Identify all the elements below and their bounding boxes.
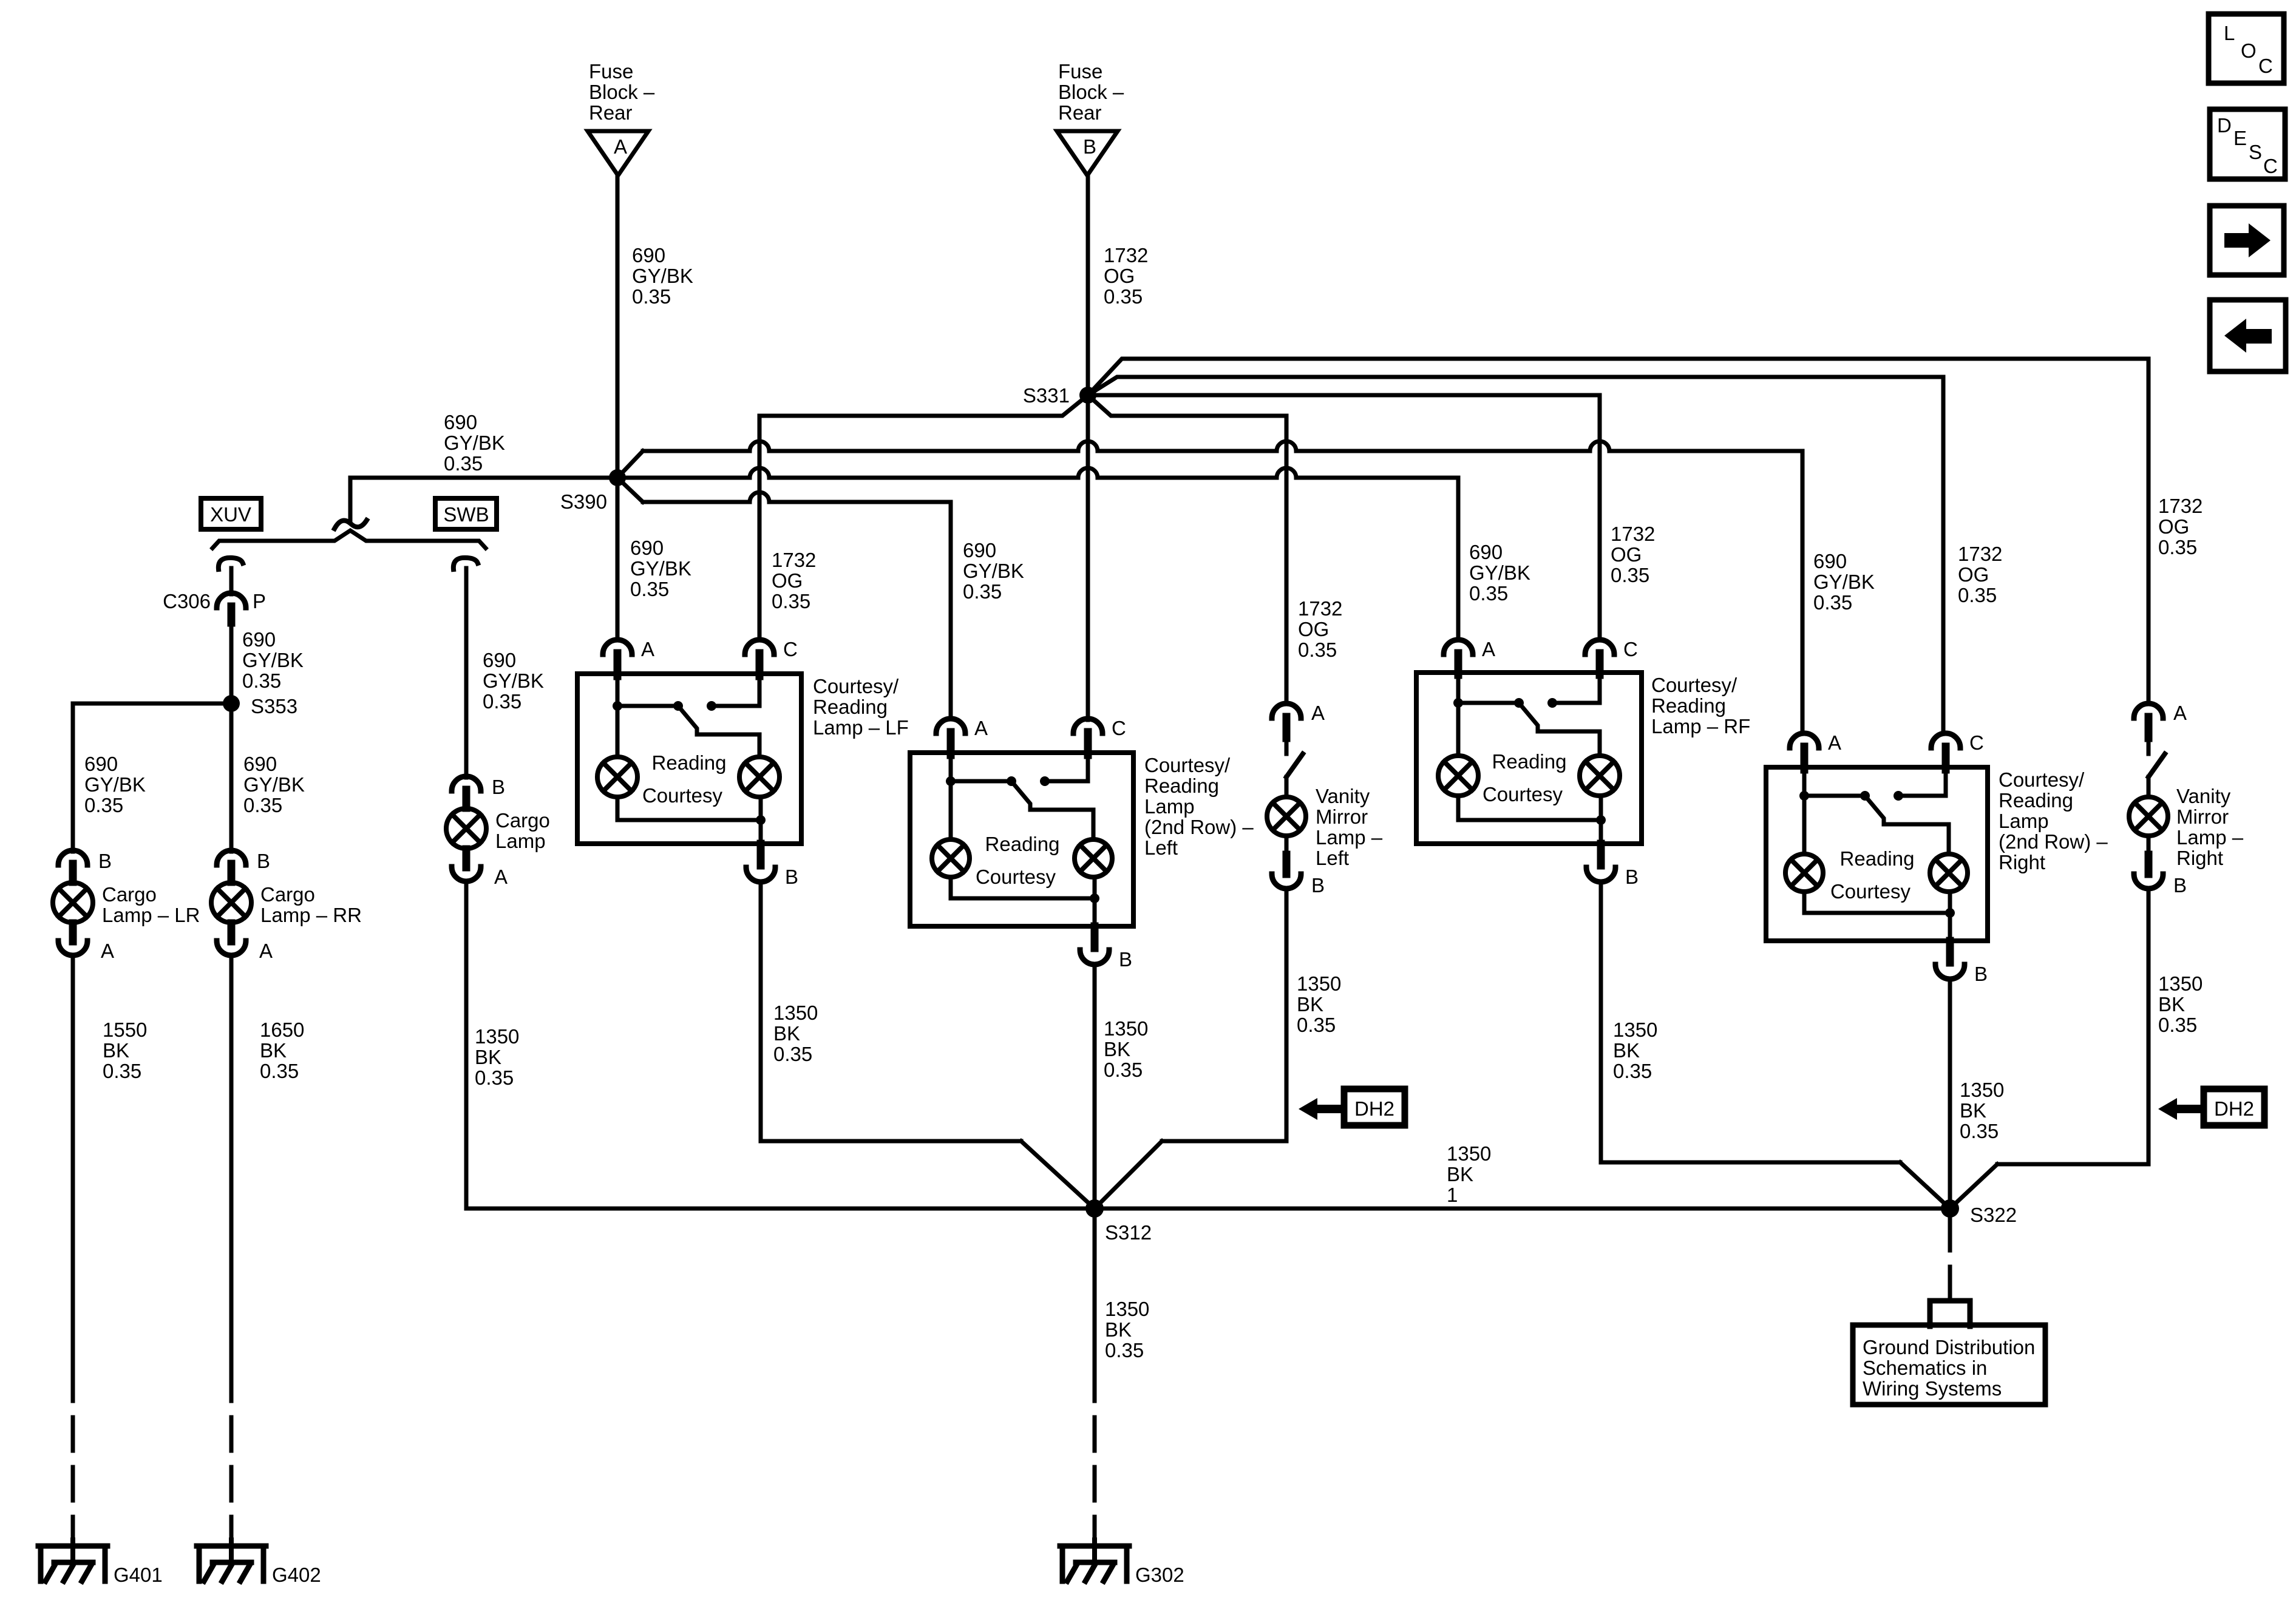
- svg-text:Block –: Block –: [589, 81, 655, 103]
- wire S312 dashed: [1093, 1368, 1097, 1542]
- svg-text:OG: OG: [772, 569, 803, 592]
- svg-text:1732: 1732: [1958, 543, 2002, 565]
- reference arrow DH2 (left): [1344, 1089, 1405, 1125]
- wire S390 left to harness brace: [350, 476, 617, 480]
- wire S331 to 2nd-row-right C: [1088, 377, 1943, 395]
- wire cargo RR dashed: [229, 1368, 234, 1542]
- svg-text:1550: 1550: [103, 1019, 147, 1041]
- wire S390 to 2nd-row-right A: [617, 451, 643, 478]
- wire S331 to vanity-left: [1088, 395, 1286, 416]
- svg-text:0.35: 0.35: [1813, 591, 1852, 614]
- svg-text:Reading: Reading: [1999, 789, 2073, 812]
- svg-text:Lamp – LR: Lamp – LR: [102, 904, 200, 926]
- svg-text:0.35: 0.35: [103, 1060, 141, 1082]
- svg-text:Reading: Reading: [1651, 694, 1726, 717]
- wire to C306: [229, 568, 234, 594]
- svg-text:S353: S353: [251, 695, 297, 717]
- svg-text:A: A: [1482, 638, 1495, 660]
- ground bus: [466, 1207, 1950, 1211]
- svg-text:OG: OG: [1958, 563, 1989, 586]
- svg-text:BK: BK: [1297, 993, 1323, 1015]
- svg-text:G302: G302: [1135, 1564, 1184, 1586]
- svg-text:0.35: 0.35: [444, 452, 483, 475]
- svg-text:Vanity: Vanity: [1316, 785, 1370, 807]
- svg-text:A: A: [259, 940, 273, 962]
- wire break symbol: [335, 520, 367, 529]
- svg-text:C: C: [2258, 55, 2273, 77]
- legend LOC box: [2209, 14, 2284, 83]
- svg-text:A: A: [2173, 702, 2187, 724]
- wire 2nd-row-left B to S312: [1093, 964, 1097, 1209]
- svg-text:C: C: [1969, 731, 1984, 754]
- svg-text:A: A: [1828, 731, 1841, 754]
- svg-text:Wiring Systems: Wiring Systems: [1863, 1377, 2002, 1400]
- svg-text:1350: 1350: [1447, 1142, 1491, 1165]
- svg-text:Left: Left: [1144, 836, 1178, 859]
- svg-text:C306: C306: [163, 590, 211, 612]
- svg-text:1350: 1350: [2158, 972, 2203, 995]
- svg-text:A: A: [101, 940, 114, 962]
- svg-text:Left: Left: [1316, 847, 1349, 869]
- connector upper half (XUV): [219, 558, 243, 569]
- svg-text:690: 690: [630, 537, 664, 559]
- svg-text:1350: 1350: [1297, 972, 1341, 995]
- svg-text:Reading: Reading: [652, 751, 727, 774]
- ground G402: [229, 1540, 234, 1564]
- svg-text:BK: BK: [1960, 1099, 1986, 1122]
- XUV box: [201, 498, 261, 529]
- svg-text:S322: S322: [1970, 1204, 2017, 1226]
- svg-text:0.35: 0.35: [632, 285, 671, 308]
- wire LF B to S312: [759, 882, 763, 1141]
- svg-text:1350: 1350: [1613, 1019, 1657, 1041]
- svg-text:690: 690: [444, 411, 477, 433]
- svg-text:GY/BK: GY/BK: [963, 560, 1024, 582]
- svg-text:Lamp: Lamp: [495, 830, 546, 852]
- svg-text:Lamp – RF: Lamp – RF: [1651, 715, 1750, 737]
- fuse block A triangle: [588, 131, 648, 175]
- svg-text:E: E: [2233, 127, 2247, 149]
- splice S353: [223, 695, 240, 712]
- splice S322: [1941, 1199, 1959, 1218]
- svg-text:B: B: [1083, 135, 1096, 158]
- ground distribution reference box: [1853, 1325, 2045, 1405]
- svg-text:Lamp – RR: Lamp – RR: [260, 904, 362, 926]
- svg-text:0.35: 0.35: [772, 590, 810, 612]
- svg-text:B: B: [1625, 866, 1639, 888]
- svg-text:Courtesy: Courtesy: [642, 784, 723, 807]
- svg-text:1: 1: [1447, 1184, 1458, 1206]
- svg-text:B: B: [257, 850, 270, 872]
- svg-text:Right: Right: [1999, 851, 2045, 873]
- fuse block B triangle: [1057, 131, 1118, 175]
- off-page ground bracket: [1930, 1301, 1970, 1326]
- svg-text:690: 690: [242, 628, 276, 651]
- svg-text:Courtesy/: Courtesy/: [813, 675, 899, 697]
- svg-text:Rear: Rear: [1058, 101, 1102, 124]
- svg-text:S390: S390: [560, 490, 607, 513]
- wire RF B to S322: [1599, 882, 1603, 1162]
- svg-text:0.35: 0.35: [475, 1066, 514, 1089]
- svg-text:A: A: [1311, 702, 1325, 724]
- svg-text:BK: BK: [1105, 1318, 1132, 1341]
- svg-text:C: C: [783, 638, 798, 660]
- svg-text:0.35: 0.35: [2158, 536, 2197, 558]
- wire S322 dashed to off-page ground: [1948, 1217, 1952, 1301]
- wire vanity-right to S322: [2147, 889, 2151, 1164]
- svg-text:C: C: [1623, 638, 1638, 660]
- svg-text:0.35: 0.35: [242, 670, 281, 692]
- svg-text:Reading: Reading: [985, 833, 1060, 855]
- cargo lamp (SWB): [452, 776, 481, 791]
- svg-text:BK: BK: [1447, 1163, 1473, 1185]
- svg-text:DH2: DH2: [1354, 1097, 1394, 1120]
- svg-text:Lamp – LF: Lamp – LF: [813, 716, 909, 739]
- legend left-arrow box: [2210, 300, 2286, 371]
- svg-text:Cargo: Cargo: [102, 883, 157, 906]
- svg-text:S: S: [2249, 141, 2262, 163]
- svg-text:1350: 1350: [1105, 1298, 1149, 1320]
- svg-text:GY/BK: GY/BK: [1469, 561, 1530, 584]
- wire cargo LR dashed: [71, 1368, 75, 1542]
- svg-text:690: 690: [483, 649, 516, 671]
- svg-text:GY/BK: GY/BK: [242, 649, 304, 671]
- svg-text:Reading: Reading: [1492, 750, 1567, 773]
- svg-text:SWB: SWB: [443, 503, 489, 526]
- svg-text:C: C: [1112, 717, 1126, 739]
- svg-text:Schematics in: Schematics in: [1863, 1357, 1987, 1379]
- svg-text:BK: BK: [2158, 993, 2185, 1015]
- svg-text:Courtesy: Courtesy: [976, 866, 1056, 888]
- splice S312: [1085, 1199, 1104, 1218]
- svg-text:0.35: 0.35: [773, 1043, 812, 1065]
- wire A fuse to S390: [616, 175, 620, 478]
- svg-text:O: O: [2241, 39, 2257, 62]
- svg-text:A: A: [641, 638, 654, 660]
- ground G302: [1092, 1540, 1097, 1564]
- svg-text:Courtesy: Courtesy: [1483, 783, 1563, 805]
- svg-text:BK: BK: [103, 1039, 129, 1062]
- svg-text:Fuse: Fuse: [589, 60, 633, 83]
- svg-text:P: P: [253, 590, 266, 612]
- svg-text:Lamp: Lamp: [1999, 810, 2049, 832]
- svg-text:0.35: 0.35: [1297, 1014, 1336, 1036]
- courtesy/reading lamp RF: [1416, 673, 1642, 844]
- svg-text:Mirror: Mirror: [1316, 805, 1368, 828]
- wire S312 to G302 (solid): [1093, 1209, 1097, 1368]
- svg-text:Courtesy/: Courtesy/: [1144, 754, 1231, 776]
- svg-text:Courtesy/: Courtesy/: [1651, 674, 1737, 696]
- wire cargo LR to ground (solid): [71, 956, 75, 1368]
- wire S390 to 2nd-row-left A: [617, 478, 643, 502]
- svg-text:0.35: 0.35: [1469, 582, 1508, 605]
- svg-text:1350: 1350: [1960, 1079, 2004, 1101]
- svg-text:GY/BK: GY/BK: [243, 773, 305, 796]
- wire S331 down to 2nd-row-left C: [1086, 395, 1090, 720]
- courtesy/reading lamp LF: [577, 674, 801, 844]
- svg-text:BK: BK: [773, 1022, 800, 1045]
- svg-text:690: 690: [243, 753, 277, 775]
- svg-text:GY/BK: GY/BK: [483, 670, 544, 692]
- svg-text:1732: 1732: [1298, 597, 1342, 620]
- svg-text:0.35: 0.35: [260, 1060, 299, 1082]
- wire vanity-left to S312: [1285, 889, 1289, 1141]
- svg-text:Rear: Rear: [589, 101, 633, 124]
- svg-text:0.35: 0.35: [1104, 285, 1143, 308]
- svg-text:0.35: 0.35: [1105, 1339, 1144, 1361]
- svg-text:1350: 1350: [773, 1002, 818, 1024]
- svg-text:Reading: Reading: [1840, 847, 1915, 870]
- svg-text:690: 690: [963, 539, 996, 561]
- wire cargo RR to ground (solid): [229, 956, 234, 1368]
- svg-text:0.35: 0.35: [1104, 1059, 1143, 1081]
- svg-text:A: A: [494, 866, 508, 888]
- svg-text:G401: G401: [114, 1564, 163, 1586]
- connector C306 pin P: [217, 593, 246, 608]
- svg-text:GY/BK: GY/BK: [630, 557, 691, 580]
- svg-text:690: 690: [84, 753, 118, 775]
- svg-text:0.35: 0.35: [630, 578, 669, 600]
- wire S331 left to LF lamp C: [759, 395, 1088, 416]
- svg-text:690: 690: [632, 244, 665, 266]
- svg-text:Mirror: Mirror: [2176, 805, 2229, 828]
- svg-text:0.35: 0.35: [483, 690, 521, 713]
- svg-text:(2nd Row) –: (2nd Row) –: [1999, 830, 2108, 853]
- svg-text:B: B: [1974, 963, 1988, 985]
- svg-text:OG: OG: [1104, 265, 1135, 287]
- wire S390 down to LF lamp A: [616, 478, 620, 640]
- svg-text:0.35: 0.35: [2158, 1014, 2197, 1036]
- legend DESC box: [2210, 109, 2285, 179]
- wire S331 to RF lamp C: [1088, 393, 1600, 398]
- svg-text:Reading: Reading: [813, 696, 888, 718]
- wire 2nd-row-right B to S322: [1948, 979, 1952, 1209]
- vanity mirror lamp left: [1272, 703, 1301, 718]
- svg-text:Reading: Reading: [1144, 775, 1219, 797]
- svg-text:0.35: 0.35: [963, 580, 1002, 603]
- svg-text:Cargo: Cargo: [495, 809, 550, 832]
- svg-text:GY/BK: GY/BK: [84, 773, 146, 796]
- svg-text:BK: BK: [475, 1046, 501, 1068]
- svg-text:L: L: [2224, 22, 2235, 44]
- harness brace: [212, 531, 486, 548]
- connector upper half (SWB): [453, 558, 478, 569]
- svg-text:GY/BK: GY/BK: [632, 265, 693, 287]
- svg-text:B: B: [98, 850, 112, 872]
- svg-text:GY/BK: GY/BK: [1813, 571, 1875, 593]
- svg-text:0.35: 0.35: [1613, 1060, 1652, 1082]
- svg-text:BK: BK: [1104, 1038, 1130, 1060]
- svg-text:BK: BK: [1613, 1039, 1640, 1062]
- svg-text:Fuse: Fuse: [1058, 60, 1102, 83]
- svg-text:Courtesy/: Courtesy/: [1999, 768, 2085, 791]
- svg-text:0.35: 0.35: [1611, 564, 1649, 586]
- vanity mirror lamp right: [2134, 703, 2163, 718]
- svg-text:Lamp: Lamp: [1144, 795, 1195, 818]
- svg-text:B: B: [2173, 874, 2187, 897]
- splice S331: [1079, 387, 1096, 404]
- wire S353 down: [229, 703, 234, 852]
- svg-text:1350: 1350: [1104, 1017, 1148, 1040]
- svg-text:DH2: DH2: [2214, 1097, 2254, 1120]
- svg-text:Lamp –: Lamp –: [2176, 826, 2244, 849]
- svg-text:0.35: 0.35: [1298, 639, 1337, 661]
- svg-text:GY/BK: GY/BK: [444, 432, 505, 454]
- svg-text:1732: 1732: [1104, 244, 1148, 266]
- courtesy/reading lamp 2nd row left: [910, 753, 1133, 926]
- svg-text:A: A: [974, 717, 988, 739]
- svg-text:1650: 1650: [260, 1019, 304, 1041]
- svg-text:0.35: 0.35: [84, 794, 123, 816]
- svg-text:690: 690: [1813, 550, 1847, 572]
- svg-text:XUV: XUV: [210, 503, 251, 526]
- svg-text:1350: 1350: [475, 1025, 519, 1048]
- wire C306 to S353: [229, 623, 234, 703]
- wire S353 branch left: [73, 702, 231, 706]
- svg-text:S331: S331: [1023, 384, 1070, 407]
- svg-text:OG: OG: [1611, 543, 1642, 566]
- svg-text:1732: 1732: [2158, 495, 2203, 517]
- svg-text:1732: 1732: [1611, 523, 1655, 545]
- svg-text:D: D: [2217, 114, 2232, 137]
- wire S390 to RF lamp A: [617, 468, 1458, 478]
- svg-text:0.35: 0.35: [243, 794, 282, 816]
- wire S331 to vanity-right (top bus): [1088, 359, 2148, 395]
- svg-text:Right: Right: [2176, 847, 2223, 869]
- SWB box: [435, 498, 497, 529]
- svg-text:B: B: [492, 776, 505, 798]
- svg-text:OG: OG: [2158, 515, 2189, 538]
- svg-text:(2nd Row) –: (2nd Row) –: [1144, 816, 1254, 838]
- svg-text:BK: BK: [260, 1039, 287, 1062]
- svg-text:690: 690: [1469, 541, 1503, 563]
- svg-text:Lamp –: Lamp –: [1316, 826, 1383, 849]
- svg-text:Courtesy: Courtesy: [1830, 880, 1911, 903]
- ground G401: [70, 1540, 75, 1564]
- wire SWB to cargo lamp: [464, 568, 469, 778]
- legend right-arrow box: [2210, 206, 2284, 275]
- svg-text:OG: OG: [1298, 618, 1329, 640]
- svg-text:B: B: [785, 866, 798, 888]
- svg-text:Cargo: Cargo: [260, 883, 315, 906]
- wire B fuse to S331: [1086, 175, 1090, 395]
- svg-text:Block –: Block –: [1058, 81, 1124, 103]
- courtesy/reading lamp 2nd row right: [1766, 767, 1988, 941]
- svg-text:1732: 1732: [772, 549, 816, 571]
- splice S390: [609, 469, 626, 486]
- cargo lamp RR: [217, 850, 246, 865]
- wire cargo SWB to ground bus: [464, 882, 469, 1209]
- reference arrow DH2 (right): [2204, 1089, 2264, 1125]
- cargo lamp LR: [58, 850, 87, 865]
- svg-text:B: B: [1311, 874, 1325, 897]
- svg-text:C: C: [2263, 155, 2278, 177]
- svg-text:S312: S312: [1105, 1221, 1152, 1244]
- svg-text:Vanity: Vanity: [2176, 785, 2231, 807]
- svg-text:0.35: 0.35: [1960, 1120, 1999, 1142]
- svg-text:Ground Distribution: Ground Distribution: [1863, 1336, 2035, 1358]
- svg-text:B: B: [1119, 948, 1132, 971]
- svg-text:0.35: 0.35: [1958, 584, 1997, 606]
- svg-text:G402: G402: [272, 1564, 321, 1586]
- svg-text:A: A: [614, 135, 627, 158]
